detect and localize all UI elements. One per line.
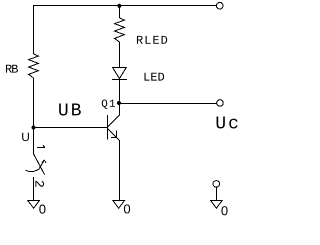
label RLED: [137, 36, 167, 44]
resistor RB: [29, 54, 39, 78]
switch S1 arrowhead: [42, 160, 46, 162]
switch S1 pin2 wire: [33, 177, 35, 200]
wire RLED top lead: [119, 6, 121, 18]
ground left label 0: [39, 205, 45, 214]
node collector junction dot: [117, 101, 121, 105]
switch S1 arrow shaft: [39, 160, 44, 169]
wire top rail: [33, 5, 216, 7]
terminal top-right circle: [216, 2, 223, 9]
wire collector rail to terminal: [119, 103, 217, 105]
label U: [22, 133, 29, 141]
label RB: [6, 65, 18, 73]
wire left rail upper: [33, 5, 35, 54]
ground right: [211, 201, 223, 209]
wire LED to collector node: [119, 80, 121, 104]
wire base: [34, 127, 108, 129]
switch S1 pin1 wire: [33, 128, 35, 154]
wire RLED bottom lead: [119, 42, 121, 67]
switch S1 arc: [26, 169, 39, 171]
label LED: [144, 73, 164, 81]
transistor Q1 emitter lead: [119, 141, 121, 201]
transistor Q1 collector diagonal: [108, 115, 120, 127]
node U junction dot: [31, 125, 35, 129]
switch S1 lever: [34, 154, 45, 175]
resistor RLED: [115, 18, 125, 42]
switch S1 pin label 1: [37, 145, 45, 147]
label Q1: [102, 100, 115, 109]
transistor Q1 base bar: [107, 115, 109, 139]
diode LED triangle: [113, 68, 127, 79]
transistor Q1 emitter diagonal: [108, 129, 120, 141]
wire left rail lower: [33, 78, 35, 128]
transistor Q1 collector lead: [119, 103, 121, 115]
diode LED cathode bar: [112, 79, 127, 81]
ground right label 0: [221, 206, 227, 215]
label UB: [59, 104, 81, 116]
label Uc: [217, 116, 238, 128]
terminal Uc circle: [217, 100, 224, 107]
switch S1 pin label 2: [35, 181, 44, 187]
node top junction dot: [117, 4, 121, 8]
transistor Q1 emitter arrowhead vertical stroke: [116, 131, 118, 138]
ground middle label 0: [124, 204, 130, 213]
ground left: [28, 201, 40, 209]
wire bottom-right terminal to ground: [216, 187, 218, 200]
transistor Q1 emitter arrowhead horizontal stroke: [111, 137, 117, 139]
terminal bottom-right circle: [213, 181, 220, 188]
ground middle: [113, 201, 125, 209]
